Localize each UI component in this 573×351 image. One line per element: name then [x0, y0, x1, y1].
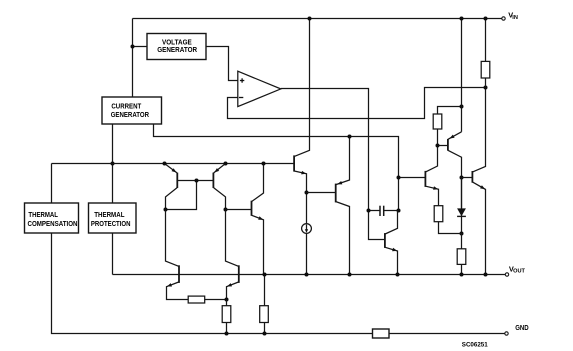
node junction Q6 emitter on V_OUT rail: [396, 273, 400, 277]
transistor Q9 base bar: [471, 171, 473, 183]
node junction V_IN drop tap: [460, 105, 464, 109]
block VOLTAGE GENERATOR: [147, 34, 206, 60]
wire voltage generator to op-amp plus input: [206, 47, 238, 81]
wire Q4 emitter: [294, 171, 306, 224]
wire Q2 collector: [214, 188, 226, 210]
transistor Q10 base bar: [178, 265, 180, 283]
wire R4 to V_OUT rail: [461, 264, 463, 274]
svg-text:GENERATOR: GENERATOR: [157, 45, 198, 54]
node junction current generator on rail: [111, 162, 115, 166]
wire Q8 emitter: [448, 132, 461, 139]
wire R2 top tap: [438, 107, 462, 115]
resistor R7: [260, 306, 269, 323]
label op-amp minus: [239, 97, 243, 99]
wire R1 to divider node: [485, 78, 487, 88]
transistor Q7 base bar: [424, 171, 426, 187]
svg-text:OUT: OUT: [513, 269, 525, 275]
wire drop to current generator: [132, 19, 134, 98]
node junction R6 on ground rail: [225, 332, 229, 336]
svg-text:GND: GND: [515, 323, 529, 332]
wire thermal compensation to ground rail: [52, 233, 373, 334]
wire Q5 collector to V_OUT rail: [336, 202, 350, 275]
diode D1: [457, 208, 466, 216]
wire Q7 emitter: [426, 186, 439, 206]
label op-amp plus: [240, 78, 244, 82]
wire Q10 collector from mirror: [166, 210, 179, 267]
node junction Q1 collector: [164, 208, 168, 212]
transistor Q6 emitter arrow: [392, 248, 397, 252]
node junction emitter resistor node: [225, 298, 229, 302]
wire diode node to R4: [461, 234, 463, 249]
wire Q2 collector to Q3 base: [226, 209, 252, 211]
wire R6 to ground rail: [226, 323, 228, 334]
transistor Q4 base bar: [293, 155, 295, 171]
transistor Q2 emitter arrow: [214, 168, 219, 172]
wire Q7 collector: [426, 146, 438, 172]
transistor Q7 emitter arrow: [433, 186, 438, 190]
resistor R4: [457, 249, 466, 265]
wire Q3 collector: [252, 164, 264, 202]
node junction Q5 emitter on bias line: [348, 135, 352, 139]
transistor Q5 base bar: [335, 184, 337, 203]
wire Q4 emitter to Q5 base: [307, 192, 336, 194]
transistor Q8 base bar: [447, 139, 449, 151]
transistor Q8 emitter arrow: [450, 135, 455, 139]
wire Q8 collector through diode: [461, 178, 463, 234]
capacitor C1 left plate: [379, 206, 381, 216]
node junction feedback divider node: [484, 86, 488, 90]
wire V_OUT rail to R7: [264, 275, 266, 306]
transistor Q3 emitter arrow: [258, 216, 263, 219]
wire bias rail y163: [52, 163, 294, 165]
wire Q6 collector: [385, 211, 397, 235]
block THERMAL PROTECTION: [89, 203, 137, 233]
svg-text:THERMAL: THERMAL: [94, 212, 125, 219]
svg-text:SC06251: SC06251: [462, 341, 488, 348]
node junction Q5 collector on V_OUT rail: [348, 273, 352, 277]
wire current generator bias output: [154, 124, 399, 211]
node junction R4 on V_OUT rail: [460, 273, 464, 277]
capacitor C1 right plate: [383, 206, 385, 216]
svg-text:THERMAL: THERMAL: [28, 212, 58, 219]
node junction bias drop: [397, 176, 401, 180]
node junction Q9 emitter on V_OUT rail: [484, 273, 488, 277]
resistor R5: [188, 296, 205, 303]
wire Q1 Q2 base tie: [177, 180, 213, 182]
wire V_IN rail drop x461: [461, 19, 463, 132]
wire current source to V_OUT rail: [306, 233, 308, 274]
node junction current source on V_OUT rail: [305, 273, 309, 277]
node junction diode cathode node: [460, 232, 464, 236]
wire op-amp minus feedback loop: [228, 88, 486, 119]
transistor Q6 base bar: [384, 233, 386, 248]
wire Q11 emitter: [227, 282, 239, 300]
wire Q11 collector from mirror: [226, 210, 239, 267]
wire V_IN rail to R1: [485, 19, 487, 62]
node junction x461 on V_IN rail: [460, 17, 464, 21]
wire node to R6: [226, 300, 228, 306]
wire V_OUT rail: [113, 274, 506, 276]
transistor Q11 base bar: [238, 265, 240, 283]
node junction x485 on V_IN rail: [484, 17, 488, 21]
node junction Q2 emitter on rail: [224, 162, 228, 166]
wire voltage generator left feed: [133, 46, 148, 48]
node V_OUT terminal: [505, 273, 508, 276]
transistor Q9 emitter arrow: [480, 185, 485, 189]
wire rail corner to thermal compensation: [51, 164, 53, 204]
wire Q8 collector: [448, 150, 461, 208]
wire R3 bottom to diode node: [439, 222, 462, 234]
node junction R7 on ground rail: [263, 332, 267, 336]
wire Q1 collector: [166, 188, 178, 210]
node junction Q4 collector on V_IN rail: [308, 17, 312, 21]
block THERMAL COMPENSATION: [25, 203, 79, 233]
current source I1: [302, 224, 312, 234]
wire Q6 emitter: [385, 247, 397, 274]
wire capacitor right lead: [384, 210, 399, 212]
block CURRENT GENERATOR: [102, 97, 162, 124]
node junction Q1 emitter on rail: [163, 162, 167, 166]
node junction voltage generator feed: [131, 45, 135, 49]
resistor R2: [433, 114, 442, 129]
transistor Q3 base bar: [251, 201, 253, 216]
wire Q9 collector to divider node: [473, 88, 486, 172]
wire ground rail right segment: [389, 333, 505, 335]
transistor Q10 emitter arrow: [167, 283, 172, 286]
wire Q5 emitter to bias line: [336, 137, 350, 185]
node junction capacitor right: [397, 209, 401, 213]
node junction Q2 collector: [224, 208, 228, 212]
wire Q1 emitter: [165, 164, 178, 173]
transistor Q1 base bar: [176, 173, 178, 188]
wire op-amp output: [281, 89, 385, 240]
transistor Q1 emitter arrow: [172, 168, 177, 172]
op-amp U1: [238, 71, 281, 106]
node GND terminal: [505, 332, 508, 335]
wire mirror diode link: [166, 181, 197, 210]
wire thermal protection to VOUT rail: [112, 233, 114, 275]
node junction Q8 base node: [436, 144, 440, 148]
transistor Q2 base bar: [212, 173, 214, 188]
svg-text:GENERATOR: GENERATOR: [111, 110, 150, 119]
resistor R1: [481, 61, 490, 78]
wire top V_IN rail: [133, 18, 502, 20]
transistor Q11 emitter arrow: [227, 283, 232, 286]
node junction base tie: [195, 179, 199, 183]
resistor R8 on ground line: [373, 329, 390, 338]
node V_IN terminal: [502, 17, 505, 20]
wire R5 to emitter junction: [205, 299, 227, 301]
node junction Q3 collector on rail: [262, 162, 266, 166]
transistor Q4 emitter arrow: [301, 171, 306, 175]
node junction Q4 emitter node: [305, 191, 309, 195]
transistor Q5 emitter arrow: [337, 181, 342, 184]
resistor R6: [222, 306, 231, 323]
svg-text:IN: IN: [512, 15, 518, 21]
wire R7 to ground rail: [264, 323, 266, 334]
wire bias to Q7 base: [399, 177, 425, 179]
svg-text:PROTECTION: PROTECTION: [91, 221, 131, 228]
wire capacitor left lead: [369, 210, 381, 212]
wire Q3 emitter: [252, 215, 264, 274]
wire current generator left output: [112, 124, 114, 203]
node junction R7 on V_OUT rail: [263, 273, 267, 277]
wire Q9 emitter to V_OUT rail: [473, 182, 486, 274]
svg-text:COMPENSATION: COMPENSATION: [28, 221, 78, 228]
resistor R3: [434, 206, 443, 222]
node junction Q8 collector Q9 base: [460, 176, 464, 180]
wire Q8 collector to Q9 base: [462, 177, 472, 179]
wire Q10 emitter: [167, 282, 189, 300]
wire R2 bottom to Q8 base node: [438, 129, 448, 146]
wire Q2 emitter: [214, 164, 226, 173]
node junction capacitor left: [367, 209, 371, 213]
wire Q4 collector to V_IN rail: [294, 19, 309, 157]
